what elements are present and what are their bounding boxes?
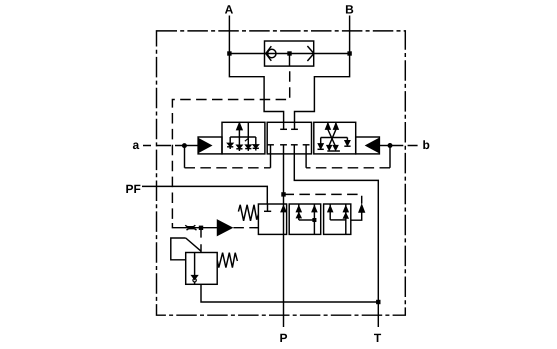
wire a branch down [184, 146, 186, 168]
wire a branch dashed under valve [185, 167, 271, 169]
wire load-sense dashed from P junction [284, 194, 362, 203]
svg-text:T: T [374, 331, 382, 345]
wire T down to label [377, 302, 379, 327]
orifice restrictor [185, 225, 195, 227]
wire A staircase to valve port [229, 54, 283, 123]
wire B line down to shuttle [349, 16, 351, 54]
pilot operator box right [356, 137, 380, 154]
node a junction [182, 143, 187, 148]
wire pilot supply corner to orifice line [172, 223, 217, 228]
node B junction [347, 51, 351, 55]
lower valve middle position internals [297, 204, 317, 234]
main valve centre position: blocked ports [267, 122, 309, 154]
relief pilot bent line [171, 238, 186, 260]
shuttle valve ball [268, 49, 276, 57]
enclosure dash-dot boundary [157, 31, 406, 315]
relief adjust diagonal [186, 238, 202, 251]
pilot operator triangle right [366, 139, 378, 152]
svg-text:PF: PF [126, 182, 141, 196]
wire shuttle output down [289, 54, 291, 67]
node tank junction [376, 300, 380, 304]
wire P from valve to lower valve [283, 154, 285, 204]
wire B staircase to valve port [295, 54, 350, 123]
wire PF line [142, 186, 267, 204]
svg-text:a: a [133, 138, 140, 152]
wire a riser to valve bottom [270, 154, 272, 168]
svg-text:A: A [225, 3, 234, 17]
shuttle valve right seat [307, 46, 314, 61]
main valve left position internals [227, 122, 259, 151]
wire dashed pilot to reducer [233, 227, 258, 229]
pilot line b [379, 145, 390, 147]
pilot triangle (reducer pilot) [218, 220, 232, 235]
svg-text:P: P [279, 331, 287, 345]
wire shuttle through line [229, 53, 349, 55]
wire pilot supply dashed from shuttle [172, 71, 289, 223]
relief valve body [186, 253, 218, 285]
wire relief output to tank [201, 284, 378, 302]
compensator spring [238, 205, 258, 221]
node A junction [227, 51, 231, 55]
relief valve poppet [194, 253, 196, 276]
wire b branch down [389, 146, 391, 168]
wire P continue down [283, 234, 285, 327]
wire a to pilot box [185, 145, 199, 147]
shuttle valve left seat [266, 46, 272, 61]
relief spring [217, 253, 237, 268]
main valve body [222, 122, 265, 154]
wire T route from valve [294, 154, 378, 302]
wire A line down to shuttle [228, 16, 230, 54]
shuttle valve body [265, 41, 314, 66]
node P pilot junction [281, 192, 285, 196]
lower valve (compensator) body [258, 204, 286, 234]
node shuttle output [287, 51, 291, 55]
wire b dashed to label [390, 145, 418, 147]
lower valve left position internals [264, 204, 286, 234]
wire relief input [200, 228, 202, 253]
pilot line a dashed [143, 145, 183, 147]
pilot operator triangle left [199, 139, 211, 152]
lower valve right position internals [328, 204, 348, 234]
svg-text:b: b [423, 138, 430, 152]
wire b branch dashed under valve [306, 167, 390, 169]
node orifice junction [199, 226, 203, 230]
main valve right position internals [318, 122, 351, 151]
node b junction [388, 143, 393, 148]
load sense arrow at right [351, 213, 362, 221]
wire b riser to valve bottom [305, 154, 307, 168]
svg-text:B: B [345, 3, 354, 17]
pilot operator box left [198, 137, 222, 154]
